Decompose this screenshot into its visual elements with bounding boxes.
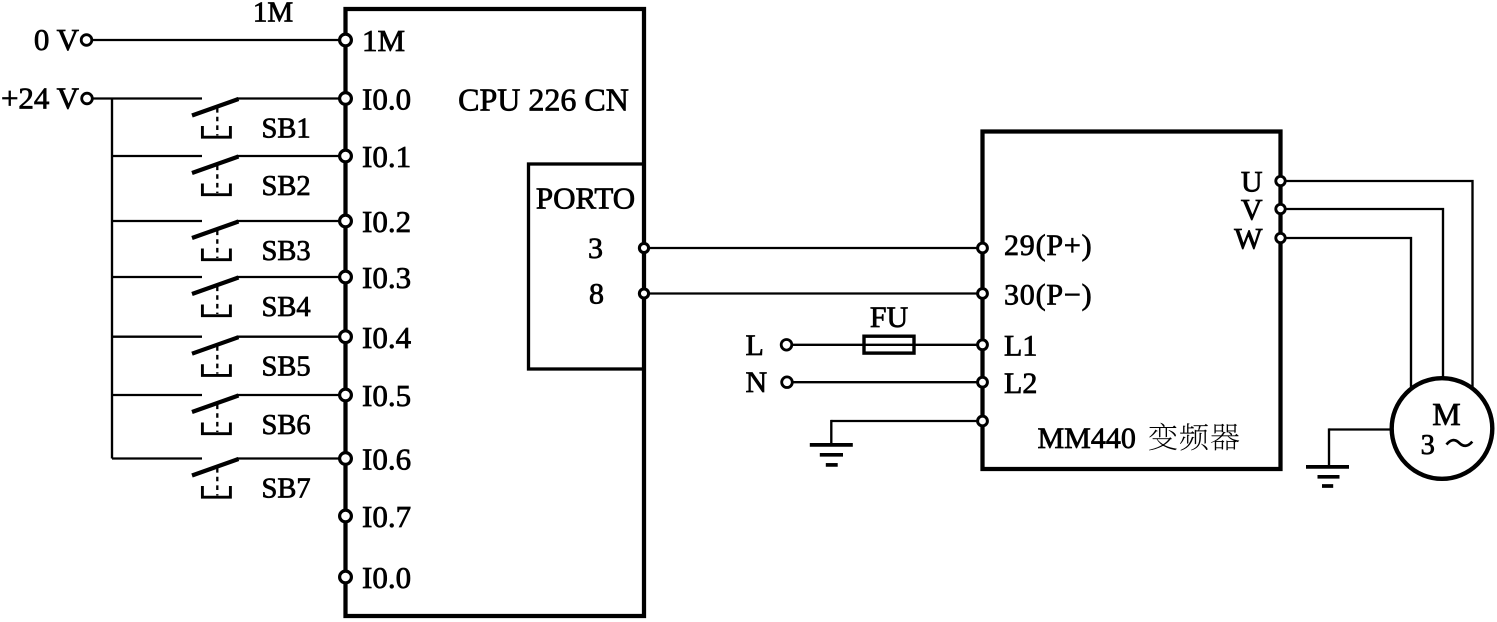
fuse FU: [864, 336, 914, 353]
wire bus to SB4 left contact: [112, 276, 202, 278]
pushbutton SB5 (NO momentary): [192, 337, 239, 375]
svg-text:M: M: [1432, 396, 1460, 432]
label PORTO: [536, 180, 635, 215]
svg-text:I0.0: I0.0: [362, 82, 411, 117]
label +24V: [1, 81, 80, 116]
pin label I0.7: [362, 499, 411, 534]
terminal L2 on MM440: [978, 377, 988, 387]
label 0V: [34, 22, 80, 57]
svg-text:I0.0: I0.0: [362, 560, 411, 595]
svg-text:30(P−): 30(P−): [1004, 278, 1092, 311]
ground (MM440 PE): [810, 445, 853, 465]
svg-text:0 V: 0 V: [34, 22, 80, 57]
svg-text:3: 3: [1421, 430, 1435, 461]
label SB7: [262, 473, 311, 504]
pin label I0.1: [362, 139, 411, 174]
svg-text:SB1: SB1: [262, 113, 311, 144]
label SB2: [262, 171, 311, 202]
wire SB2 right contact to I0.1: [237, 155, 346, 157]
pin label 29(P+): [1004, 229, 1092, 262]
wire SB4 right contact to I0.3: [237, 276, 346, 278]
wire bus to SB7 left contact: [112, 457, 202, 459]
svg-text:1M: 1M: [362, 23, 405, 58]
terminal I0.1 on CPU: [340, 150, 352, 162]
label SB4: [262, 292, 311, 323]
pushbutton SB2 (NO momentary): [192, 157, 239, 195]
svg-text:I0.6: I0.6: [362, 442, 411, 477]
terminal I0.0 on CPU: [340, 93, 352, 105]
terminal I0.3 on CPU: [340, 271, 352, 283]
label L: [746, 329, 764, 362]
label SB1: [262, 113, 311, 144]
pin label L2: [1004, 367, 1037, 400]
pin label 8: [589, 278, 604, 311]
svg-text:I0.7: I0.7: [362, 499, 411, 534]
terminal 29(P+) on MM440: [978, 243, 988, 253]
pushbutton SB1 (NO momentary): [192, 99, 239, 137]
terminal U on MM440: [1276, 176, 1285, 185]
wire L to L1 through fuse: [791, 344, 983, 346]
label CPU 226 CN: [458, 82, 629, 118]
wire SB1 right contact to I0.0: [237, 97, 346, 99]
pushbutton SB7 (NO momentary): [192, 459, 239, 497]
terminal pin 8: [639, 289, 648, 298]
svg-text:L: L: [746, 329, 764, 362]
svg-text:L1: L1: [1004, 329, 1037, 362]
wire bus to SB3 left contact: [112, 220, 202, 222]
wire motor frame to ground: [1329, 428, 1394, 466]
svg-text:N: N: [746, 366, 768, 399]
net label 1M (top): [253, 0, 293, 29]
svg-text:L2: L2: [1004, 367, 1037, 400]
svg-text:I0.1: I0.1: [362, 139, 411, 174]
pin label I0.5: [362, 378, 411, 413]
terminal 30(P−) on MM440: [978, 289, 988, 299]
pin label U: [1241, 165, 1263, 198]
wire SB5 right contact to I0.4: [237, 336, 346, 338]
pin label 1M: [362, 23, 405, 58]
pin label L1: [1004, 329, 1037, 362]
svg-text:I0.3: I0.3: [362, 260, 411, 295]
terminal I0.6 on CPU: [340, 453, 352, 465]
terminal pin 3: [639, 243, 648, 252]
inverter box MM440: [983, 132, 1281, 470]
wire +24V bus vertical: [111, 99, 113, 459]
terminal L1 on MM440: [978, 340, 988, 350]
terminal N: [782, 377, 793, 388]
wire SB7 right contact to I0.6: [237, 457, 346, 459]
ground (motor PE): [1306, 467, 1349, 486]
terminal I0.4 on CPU: [340, 331, 352, 343]
wire MM440 PE terminal to ground: [831, 420, 982, 445]
terminal W on MM440: [1276, 233, 1285, 242]
pin label W: [1234, 222, 1263, 255]
wire V output to motor: [1281, 209, 1444, 392]
label SB6: [262, 410, 311, 441]
svg-text:CPU 226 CN: CPU 226 CN: [458, 82, 629, 118]
wire bus to SB5 left contact: [112, 336, 202, 338]
wire bus to SB2 left contact: [112, 155, 202, 157]
pin label V: [1241, 193, 1263, 226]
pin label I0.0: [362, 560, 411, 595]
label SB5: [262, 352, 311, 383]
svg-text:PORTO: PORTO: [536, 180, 635, 215]
wire N to L2: [792, 381, 983, 383]
motor M1 (3-phase): [1392, 378, 1493, 479]
svg-text:8: 8: [589, 278, 604, 311]
pin label I0.2: [362, 204, 411, 239]
wire SB6 right contact to I0.5: [237, 394, 346, 396]
svg-text:FU: FU: [870, 301, 909, 334]
wire SB3 right contact to I0.2: [237, 220, 346, 222]
label FU: [870, 301, 909, 334]
svg-text:SB7: SB7: [262, 473, 311, 504]
svg-text:+24 V: +24 V: [1, 81, 80, 116]
svg-text:1M: 1M: [253, 0, 293, 29]
svg-text:3: 3: [588, 232, 603, 265]
terminal V on MM440: [1276, 204, 1285, 213]
terminal +24V: [82, 93, 93, 104]
wire PORTO pin8 to 30(P-): [644, 292, 983, 294]
pushbutton SB6 (NO momentary): [192, 396, 239, 434]
terminal I0.7 on CPU: [340, 510, 352, 522]
pushbutton SB3 (NO momentary): [192, 222, 239, 260]
pin label I0.0: [362, 82, 411, 117]
label 3~: [1421, 430, 1473, 461]
svg-text:MM440: MM440: [1038, 422, 1136, 455]
label MM440 变频器: [1038, 422, 1240, 455]
svg-text:SB5: SB5: [262, 352, 311, 383]
label N: [746, 366, 768, 399]
port box PORTO: [529, 164, 645, 369]
wire 0V to 1M: [91, 39, 346, 41]
svg-text:I0.5: I0.5: [362, 378, 411, 413]
wire bus to SB6 left contact: [112, 394, 202, 396]
wire W output to motor: [1281, 238, 1412, 392]
terminal I0.2 on CPU: [340, 215, 352, 227]
terminal L: [781, 340, 792, 351]
pin label I0.4: [362, 320, 412, 355]
pushbutton SB4 (NO momentary): [192, 278, 239, 316]
svg-text:I0.2: I0.2: [362, 204, 411, 239]
terminal PE on MM440: [978, 416, 988, 426]
terminal I0.5 on CPU: [340, 389, 352, 401]
wire +24V rail to SB1 left contact: [92, 97, 202, 99]
svg-text:W: W: [1234, 222, 1263, 255]
PLC box CPU 226 CN: [346, 9, 645, 616]
terminal 0V: [81, 35, 92, 46]
svg-text:SB3: SB3: [262, 236, 311, 267]
svg-text:SB2: SB2: [262, 171, 311, 202]
wire PORTO pin3 to 29(P+): [644, 247, 983, 249]
label SB3: [262, 236, 311, 267]
wire U output to motor: [1281, 181, 1473, 392]
pin label 30(P−): [1004, 278, 1092, 311]
pin label I0.6: [362, 442, 411, 477]
label M: [1432, 396, 1460, 432]
svg-text:29(P+): 29(P+): [1004, 229, 1092, 262]
svg-text:SB4: SB4: [262, 292, 311, 323]
svg-text:SB6: SB6: [262, 410, 311, 441]
terminal I0.0 on CPU: [340, 571, 352, 583]
pin label 3: [588, 232, 603, 265]
pin label I0.3: [362, 260, 411, 295]
svg-text:I0.4: I0.4: [362, 320, 412, 355]
terminal 1M on CPU: [340, 34, 352, 46]
